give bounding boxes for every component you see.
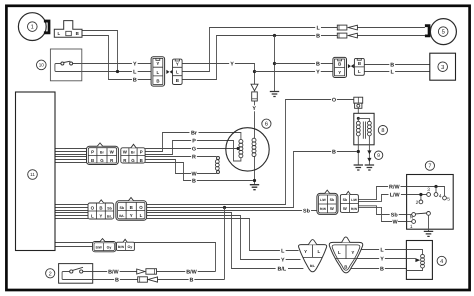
wire B to ignition coil ground: [147, 152, 357, 208]
label B wire: [191, 178, 197, 184]
svg-text:Y: Y: [252, 106, 256, 112]
wire B from 3-pin connector up and right to bullet: [182, 36, 337, 80]
svg-text:B/L: B/L: [277, 266, 286, 272]
wires CDI to B/W Gy connector: [55, 243, 93, 247]
svg-text:L: L: [157, 70, 160, 75]
wire B/W from connector down to main switch: [134, 243, 215, 272]
svg-text:L: L: [338, 250, 341, 255]
wire W to pickup coil: [145, 160, 216, 174]
svg-text:L: L: [91, 214, 94, 219]
lamp 1 connector L B: [54, 21, 82, 38]
magneto lighting coil: [252, 138, 256, 142]
svg-text:L: L: [140, 213, 143, 218]
label B wire: [315, 33, 321, 39]
svg-text:3: 3: [441, 64, 444, 71]
svg-text:L/W: L/W: [320, 198, 326, 202]
svg-text:O: O: [91, 206, 95, 211]
resistor unit 4 coil: [421, 254, 425, 258]
label Y wire: [251, 105, 257, 111]
svg-text:2: 2: [49, 271, 52, 277]
label W wire: [392, 219, 398, 225]
label B wire: [132, 77, 138, 83]
svg-text:B/W: B/W: [108, 269, 119, 275]
junction dot B to main switch: [223, 206, 226, 209]
svg-text:O: O: [332, 97, 336, 103]
svg-text:B: B: [316, 33, 320, 39]
wire Y from light switch to connector: [73, 63, 152, 65]
svg-text:L/W: L/W: [351, 198, 357, 202]
svg-text:Gy: Gy: [128, 245, 133, 249]
wire B to taillight bracket: [357, 35, 425, 37]
svg-text:3: 3: [427, 187, 430, 193]
bullet connector B line: [337, 33, 347, 38]
svg-text:Y: Y: [304, 249, 307, 254]
label P wire: [191, 138, 197, 144]
svg-text:B/W: B/W: [96, 245, 102, 249]
svg-text:7: 7: [428, 164, 431, 170]
ignition coil 8 windings: [357, 117, 360, 120]
svg-text:4: 4: [439, 193, 442, 199]
lamp 5 socket bracket: [425, 24, 431, 37]
label B wire: [315, 61, 321, 67]
bullet connector Y vertical: [251, 84, 258, 91]
connector 6-pin middle right: [116, 201, 147, 221]
svg-text:Y: Y: [133, 61, 137, 67]
wire Y branch to 2-pin connector: [255, 71, 333, 73]
connector B/W Gy left: [93, 242, 116, 252]
wire G to magneto center tap: [145, 148, 237, 150]
box 3: [430, 53, 456, 80]
junction dot Y to L branch: [253, 70, 256, 73]
label Br wire: [189, 130, 198, 136]
svg-text:2: 2: [416, 200, 419, 206]
ignition coil 8 box: [354, 113, 374, 145]
magneto 6: [226, 128, 269, 171]
svg-text:B: B: [156, 78, 159, 83]
svg-text:4: 4: [440, 259, 443, 265]
svg-text:B: B: [99, 206, 102, 211]
label L/W wire: [388, 192, 400, 198]
label G wire: [191, 146, 197, 152]
svg-text:Sb: Sb: [120, 206, 125, 210]
svg-text:B: B: [192, 178, 196, 184]
wire Br to magneto coil top: [145, 133, 241, 152]
wire B/W main switch to bullet: [93, 271, 216, 273]
ground B branch: [270, 92, 279, 97]
label W wire: [191, 171, 197, 177]
label Y wire: [280, 257, 286, 263]
wire Sb handlebar connector to switch box: [358, 206, 406, 215]
svg-text:G: G: [131, 158, 135, 163]
label B/W wire: [185, 269, 197, 275]
svg-text:B: B: [76, 31, 79, 36]
svg-text:B: B: [344, 264, 347, 269]
wire L loop inside light switch to connector: [55, 64, 151, 72]
svg-text:B: B: [358, 61, 361, 66]
connector 2-pin left B Y: [333, 57, 347, 77]
connector 6-pin middle left: [88, 203, 114, 219]
magneto source coil: [239, 140, 243, 144]
wires triangle connector to resistor unit: [351, 250, 406, 269]
wire W handlebar connector to switch box: [358, 207, 406, 221]
junction dot G center tap: [237, 147, 240, 150]
svg-text:G: G: [100, 158, 104, 163]
svg-text:B: B: [332, 149, 336, 155]
svg-text:Br: Br: [131, 151, 136, 155]
connector 2-pin right B L: [354, 58, 364, 75]
label L wire: [379, 247, 385, 253]
lamp 1 socket bracket: [44, 20, 51, 35]
label R wire: [191, 154, 197, 160]
connector mating mark: [166, 70, 172, 74]
label L wire: [132, 69, 138, 75]
svg-text:Y: Y: [281, 257, 285, 263]
svg-text:9: 9: [377, 153, 380, 159]
wire B from headlight connector down to B line: [82, 36, 151, 80]
label B wire: [379, 266, 385, 272]
junction dot L line: [116, 70, 119, 73]
svg-text:B: B: [338, 61, 341, 66]
wires CDI to 6-pin connector upper: [55, 149, 87, 163]
svg-text:W: W: [343, 206, 347, 211]
lamp 1: [18, 13, 46, 41]
label Y wire: [379, 256, 385, 262]
wire L from headlight connector down to L line: [82, 31, 118, 72]
label B/W wire: [107, 269, 119, 275]
label B wire: [331, 149, 337, 155]
wire B/L down to triangle connector: [147, 213, 304, 269]
wire R/W handlebar connector to switch box: [358, 187, 406, 200]
svg-text:B/W: B/W: [186, 269, 197, 275]
switch 7 W contact 1: [407, 221, 412, 223]
wire L down to triangle connector: [147, 219, 299, 251]
svg-text:Y: Y: [230, 61, 234, 67]
connector 2x2 right: [340, 195, 358, 213]
switch 7 terminals: [427, 193, 431, 197]
label B wire: [189, 277, 195, 283]
wire B branch vertical to ground: [274, 36, 276, 92]
svg-text:B/L: B/L: [310, 264, 315, 268]
svg-text:Sb: Sb: [303, 208, 311, 214]
resistor unit 4 internal L lead: [406, 250, 422, 255]
svg-text:B/L: B/L: [107, 215, 112, 219]
svg-text:10: 10: [39, 63, 45, 68]
svg-text:5: 5: [447, 196, 450, 202]
svg-text:Sb: Sb: [343, 198, 348, 202]
connector 3-pin left: [151, 57, 165, 86]
svg-text:1: 1: [410, 224, 413, 230]
svg-text:R/W: R/W: [389, 184, 400, 190]
wires CDI to 6-pin connector middle: [55, 205, 88, 219]
svg-text:1: 1: [31, 25, 34, 31]
connector mating mark: [348, 64, 354, 68]
connector 2x2 left: [317, 193, 338, 214]
svg-text:Y: Y: [156, 61, 159, 66]
svg-text:Y: Y: [316, 69, 320, 75]
svg-text:Br: Br: [191, 130, 198, 136]
label R/W wire: [388, 184, 400, 190]
ground below switch 7: [424, 231, 433, 236]
connector triangle right: [329, 242, 362, 273]
svg-text:8: 8: [381, 128, 384, 134]
wire R to pickup coil: [145, 156, 216, 158]
svg-text:L: L: [176, 70, 179, 75]
resistor unit 4 internal B lead: [406, 268, 422, 271]
main switch 2 internal wire: [62, 272, 93, 280]
wire B to magneto ground junction: [145, 163, 253, 181]
svg-text:B: B: [140, 158, 143, 163]
svg-text:Y: Y: [380, 256, 384, 262]
label B wire: [389, 62, 395, 68]
svg-text:P: P: [140, 150, 143, 155]
wire B branch to 2-pin connector: [275, 63, 333, 65]
svg-text:L: L: [58, 31, 61, 36]
svg-text:G: G: [192, 146, 196, 152]
junction dot B branch: [273, 62, 276, 65]
bullet connector B/W line: [137, 269, 145, 274]
junction dot magneto ground: [253, 179, 256, 182]
svg-text:B: B: [190, 277, 194, 283]
connector 6-pin upper right: [121, 148, 145, 163]
wire L from 3-pin connector up and right to bullet: [182, 28, 337, 72]
svg-text:B: B: [91, 158, 94, 163]
label L wire: [389, 69, 395, 75]
switch 10 box: [50, 49, 81, 81]
switch 7 R/W line: [407, 187, 445, 197]
CDI unit 11: [16, 92, 56, 251]
label B wire: [114, 277, 120, 283]
bullet connector L line: [337, 25, 347, 30]
wire Y through magneto coil to ground junction: [254, 156, 256, 185]
label Y wire: [315, 69, 321, 75]
wire L to taillight bracket: [357, 27, 425, 29]
junction dot B top line: [273, 34, 276, 37]
label Y wire: [229, 61, 235, 67]
svg-text:B/L: B/L: [119, 214, 124, 218]
svg-text:L/W: L/W: [390, 192, 401, 198]
wire Y down to triangle connector: [147, 216, 301, 260]
label Y wire: [132, 61, 138, 67]
svg-text:6: 6: [265, 122, 268, 128]
svg-text:R/W: R/W: [320, 207, 326, 211]
connector 3-pin right: [173, 59, 183, 84]
svg-text:11: 11: [30, 172, 35, 177]
wire B branch down to main switch: [224, 208, 226, 280]
pickup coil: [217, 157, 220, 160]
bullet connector B line: [138, 277, 148, 282]
connector triangle left: [299, 245, 327, 272]
svg-text:B: B: [133, 77, 137, 83]
label O wire: [331, 97, 337, 103]
label L wire: [280, 248, 286, 254]
switch 7 dimmer N contact: [407, 214, 412, 216]
connector 6-pin upper left: [87, 146, 119, 164]
svg-text:Sb: Sb: [107, 207, 112, 211]
spark plug 9 lead: [368, 136, 370, 165]
svg-text:R/W: R/W: [351, 207, 357, 211]
svg-text:Y: Y: [99, 214, 102, 219]
label Sb wire: [390, 212, 399, 218]
svg-text:Sb: Sb: [391, 212, 399, 218]
svg-text:P: P: [91, 150, 94, 155]
main switch 2 box: [59, 264, 93, 284]
wire Sb to handlebar connector: [147, 210, 317, 212]
ignition coil 8 primary ground lead: [357, 136, 359, 165]
wire Y from 3-pin connector to junction: [182, 64, 254, 85]
lamp 5: [430, 19, 456, 45]
ground magneto: [250, 185, 259, 190]
svg-text:Y: Y: [176, 62, 179, 67]
svg-text:B/W: B/W: [118, 245, 124, 249]
svg-text:5: 5: [442, 30, 445, 36]
wire L/W handlebar connector to switch box: [358, 195, 406, 202]
svg-text:B: B: [390, 62, 394, 68]
svg-text:Y: Y: [338, 70, 341, 75]
wire Y vertical through bullet to magneto: [254, 101, 256, 138]
svg-text:P: P: [192, 138, 196, 144]
switch 7 L/W line: [407, 195, 427, 200]
wire B from connector to CDI lamp box: [364, 64, 430, 66]
label Sb wire: [302, 208, 311, 214]
svg-text:Y: Y: [351, 250, 354, 255]
svg-text:O: O: [139, 205, 143, 210]
svg-text:B: B: [380, 266, 384, 272]
svg-text:R: R: [192, 154, 196, 160]
svg-text:B: B: [115, 277, 119, 283]
svg-text:Gy: Gy: [107, 245, 112, 249]
svg-text:B: B: [130, 205, 133, 210]
svg-text:W: W: [330, 206, 334, 211]
svg-text:B: B: [316, 61, 320, 67]
label L wire: [315, 25, 321, 31]
resistor unit 4 box: [406, 241, 432, 280]
wire P to magneto coil bottom: [145, 141, 241, 162]
svg-text:B: B: [176, 78, 179, 83]
svg-text:Sb: Sb: [330, 198, 335, 202]
label B/L wire: [276, 266, 288, 272]
svg-text:L: L: [317, 249, 320, 254]
wire O to ignition coil connector: [147, 100, 354, 205]
main switch 2 contacts: [70, 270, 73, 273]
wire L from connector to CDI lamp box: [364, 71, 430, 73]
resistor unit 4 wiper arrow: [406, 258, 415, 260]
ignition coil 8 connector: [354, 97, 363, 103]
handlebar switch 7 box: [407, 175, 454, 230]
svg-text:Y: Y: [130, 213, 133, 218]
svg-text:Br: Br: [100, 151, 105, 155]
wire B main switch to bullet and up: [93, 279, 225, 281]
connector B/W Gy right: [117, 242, 135, 250]
svg-text:L: L: [358, 69, 361, 74]
switch 10 contacts: [61, 62, 64, 65]
